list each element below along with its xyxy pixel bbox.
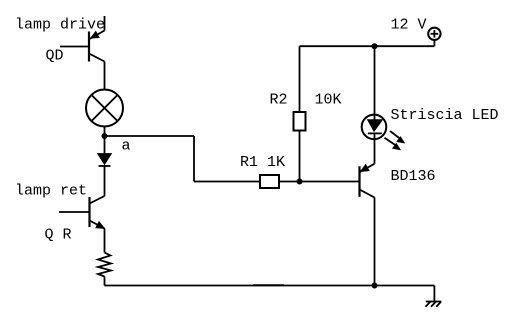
wire corner to R1 <box>194 181 260 183</box>
svg-text:a: a <box>122 138 131 155</box>
svg-text:BD136: BD136 <box>391 168 436 185</box>
wire node a to diode <box>104 136 106 154</box>
svg-text:R2: R2 <box>270 92 288 109</box>
wire R2 top lead <box>299 46 301 112</box>
resistor R2 <box>294 112 306 131</box>
svg-text:Q R: Q R <box>45 227 72 244</box>
wire R1 to BD136 base <box>279 181 360 183</box>
junction top rail LED <box>372 43 378 49</box>
wire corner drop <box>193 136 195 182</box>
svg-text:QD: QD <box>46 48 64 65</box>
svg-text:lamp ret: lamp ret <box>15 183 87 200</box>
svg-text:10K: 10K <box>315 92 342 109</box>
wire diode to QR collector <box>104 166 106 196</box>
wire overlapped segment on bottom rail <box>253 284 284 286</box>
svg-text:R1 1K: R1 1K <box>240 154 285 171</box>
wire top rail <box>300 45 435 47</box>
svg-text:lamp drive: lamp drive <box>15 17 105 34</box>
resistor (zigzag, QR emitter) <box>98 253 111 277</box>
transistor QD (PNP) <box>89 31 105 62</box>
lamp (circle with X) <box>86 90 123 127</box>
wire LED anode lead <box>374 46 376 120</box>
wire bottom rail <box>105 285 435 287</box>
wire ground drop <box>433 286 435 302</box>
transistor QR (NPN) <box>90 196 105 229</box>
wire QD emitter top lead <box>104 16 106 31</box>
wire resistor to bottom rail <box>104 277 106 286</box>
junction R2 bottom <box>297 179 303 185</box>
wire node a to corner <box>105 135 195 137</box>
wire R2 bottom lead <box>299 131 301 182</box>
power terminal +12V <box>428 28 440 47</box>
wire BD136 collector to bottom rail <box>374 198 376 286</box>
ground <box>426 302 442 307</box>
resistor R1 <box>260 175 279 188</box>
transistor BD136 (PNP) <box>360 164 375 198</box>
wire QD base lead <box>60 46 89 48</box>
wire QD collector to lamp <box>104 62 106 90</box>
junction bottom rail <box>372 283 378 289</box>
svg-text:Striscia LED: Striscia LED <box>391 107 499 124</box>
wire QR emitter to resistor <box>104 229 106 253</box>
svg-text:12 V: 12 V <box>391 17 427 34</box>
LED (Striscia LED) <box>362 115 405 150</box>
wire QR base lead <box>59 211 90 213</box>
diode <box>98 154 112 167</box>
node a junction <box>102 133 108 139</box>
wire LED cathode to BD136 emitter <box>374 133 376 163</box>
wire lamp to node a <box>104 127 106 137</box>
